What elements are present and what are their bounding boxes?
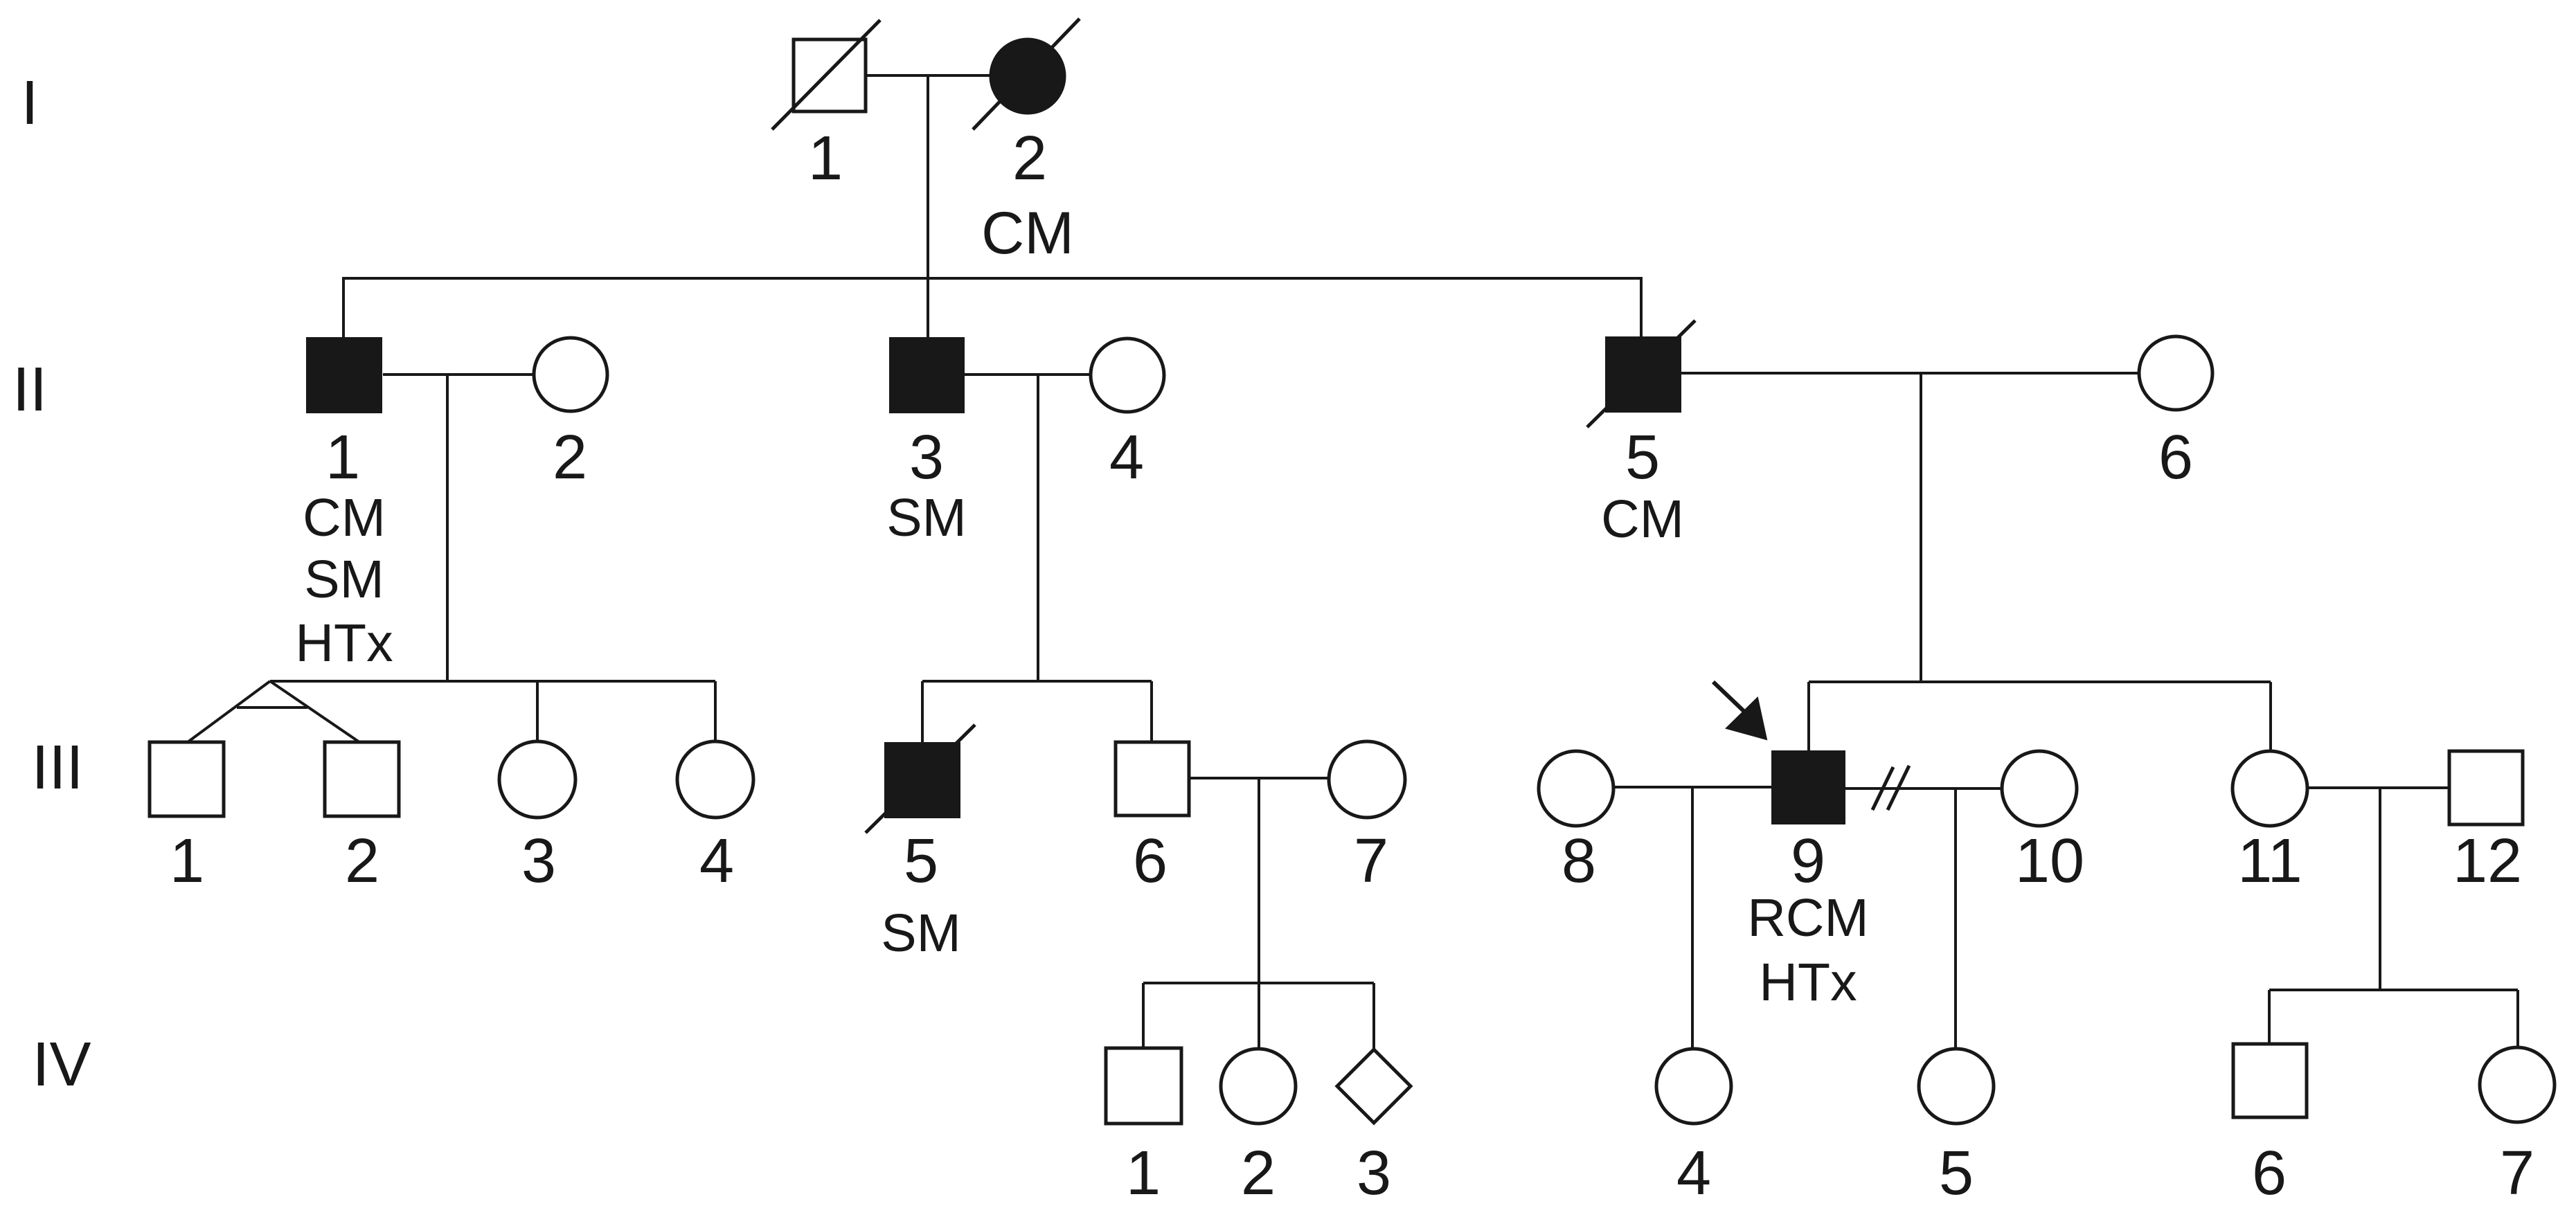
wire: II-3/II-4 couple line bbox=[965, 373, 1091, 376]
individual III-11 female bbox=[2233, 751, 2307, 826]
wire: I couple line bbox=[865, 74, 990, 77]
svg-text:4: 4 bbox=[1676, 1139, 1711, 1208]
wire: family D sibship line bbox=[1143, 982, 1374, 984]
wire: drop to III-4 bbox=[714, 681, 717, 743]
individual II-6 female bbox=[2139, 336, 2212, 410]
svg-text:10: 10 bbox=[2015, 827, 2084, 896]
individual II-4 female bbox=[1091, 339, 1164, 412]
individual II-2 female bbox=[534, 338, 607, 411]
svg-text:4: 4 bbox=[699, 827, 734, 896]
individual I-2 affected deceased female bbox=[973, 19, 1080, 129]
svg-text:I: I bbox=[21, 69, 38, 138]
svg-text:3: 3 bbox=[521, 827, 556, 896]
individual IV-5 female bbox=[1919, 1049, 1994, 1124]
wire: drop to III-11 bbox=[2269, 682, 2272, 752]
individual III-2 male twin bbox=[325, 742, 399, 816]
wire: drop to IV-3 bbox=[1372, 983, 1375, 1051]
divorce slashes bbox=[1872, 766, 1909, 810]
proband arrow bbox=[1713, 682, 1766, 739]
individual IV-6 male bbox=[2233, 1044, 2307, 1117]
individual II-5 affected deceased male bbox=[1587, 321, 1695, 427]
wire: drop to III-9 bbox=[1807, 682, 1810, 750]
svg-text:7: 7 bbox=[1354, 827, 1388, 896]
svg-text:5: 5 bbox=[904, 827, 938, 896]
svg-text:4: 4 bbox=[1109, 423, 1144, 492]
svg-text:12: 12 bbox=[2453, 827, 2522, 896]
wire: III-8/III-9 child line to IV-4 bbox=[1691, 787, 1694, 1048]
individual III-4 female bbox=[677, 741, 753, 818]
wire: II sibship line bbox=[343, 277, 1641, 280]
individual III-5 affected deceased male bbox=[866, 725, 975, 833]
wire: family A sibship line bbox=[270, 680, 715, 683]
wire: II-1/II-2 descender bbox=[446, 375, 449, 681]
svg-text:CM: CM bbox=[981, 200, 1074, 267]
individual III-8 female bbox=[1539, 751, 1613, 826]
individual III-1 male twin bbox=[150, 742, 224, 816]
svg-text:2: 2 bbox=[1241, 1139, 1276, 1208]
svg-text:CM: CM bbox=[1601, 489, 1684, 549]
wire: II-5/II-6 couple line bbox=[1681, 372, 2140, 375]
individual III-3 female bbox=[499, 741, 575, 818]
individual IV-1 male bbox=[1106, 1048, 1181, 1124]
svg-text:HTx: HTx bbox=[295, 613, 393, 673]
svg-text:CM: CM bbox=[303, 488, 386, 548]
wire: II-5/II-6 descender bbox=[1920, 373, 1922, 682]
wire: III-6/III-7 descender bbox=[1258, 778, 1260, 1048]
wire: drop to III-3 bbox=[536, 681, 539, 743]
individual I-1 deceased male bbox=[772, 20, 880, 129]
svg-text:RCM: RCM bbox=[1747, 888, 1868, 948]
wire: family B sibship line bbox=[922, 680, 1152, 683]
svg-text:SM: SM bbox=[881, 903, 961, 963]
svg-text:1: 1 bbox=[325, 423, 360, 492]
svg-text:1: 1 bbox=[1126, 1139, 1161, 1208]
wire: III-11/III-12 couple line bbox=[2307, 786, 2449, 789]
svg-text:2: 2 bbox=[553, 423, 587, 492]
svg-text:SM: SM bbox=[886, 488, 967, 548]
wire: drop to III-6 bbox=[1150, 681, 1153, 742]
individual III-10 female bbox=[2002, 751, 2077, 826]
svg-text:II: II bbox=[12, 355, 47, 424]
svg-text:SM: SM bbox=[304, 550, 384, 609]
svg-text:2: 2 bbox=[345, 827, 379, 896]
wire: I descender bbox=[927, 75, 929, 278]
svg-text:6: 6 bbox=[2158, 423, 2193, 492]
wire: family E sibship line bbox=[2269, 989, 2518, 991]
svg-text:5: 5 bbox=[1939, 1139, 1974, 1208]
wire: drop to IV-1 bbox=[1142, 983, 1145, 1048]
individual II-1 affected male bbox=[306, 337, 382, 413]
individual IV-7 female bbox=[2480, 1047, 2555, 1122]
wire: monozygotic twin bar bbox=[237, 706, 307, 709]
svg-text:III: III bbox=[31, 733, 83, 802]
svg-text:HTx: HTx bbox=[1759, 953, 1857, 1012]
wire: twin diagonal to III-2 bbox=[270, 681, 359, 742]
wire: II-3/II-4 descender bbox=[1037, 375, 1039, 681]
wire: drop to II-5 bbox=[1640, 277, 1643, 336]
individual IV-4 female bbox=[1656, 1049, 1731, 1124]
wire: III-6/III-7 couple line bbox=[1189, 777, 1330, 779]
svg-text:IV: IV bbox=[32, 1030, 91, 1099]
svg-text:2: 2 bbox=[1012, 124, 1047, 193]
individual II-3 affected male bbox=[889, 337, 965, 413]
svg-text:1: 1 bbox=[170, 827, 204, 896]
svg-text:6: 6 bbox=[2252, 1139, 2287, 1208]
svg-text:11: 11 bbox=[2237, 827, 2302, 896]
svg-text:3: 3 bbox=[1357, 1139, 1391, 1208]
wire: drop to II-1 bbox=[342, 277, 345, 337]
svg-text:3: 3 bbox=[909, 423, 944, 492]
svg-text:8: 8 bbox=[1562, 827, 1596, 896]
wire: drop to II-3 bbox=[927, 278, 929, 337]
wire: drop to IV-7 bbox=[2516, 990, 2519, 1049]
wire: drop to IV-6 bbox=[2268, 990, 2271, 1044]
wire: drop to III-5 bbox=[921, 681, 924, 742]
svg-text:5: 5 bbox=[1625, 423, 1660, 492]
individual III-6 male bbox=[1116, 742, 1189, 815]
wire: III-11/III-12 descender bbox=[2379, 788, 2381, 990]
wire: III-9/III-10 couple line bbox=[1845, 787, 2003, 790]
wire: family C sibship line bbox=[1809, 680, 2271, 683]
wire: II-1/II-2 couple line bbox=[383, 373, 534, 376]
svg-text:9: 9 bbox=[1791, 827, 1825, 896]
individual IV-3 unknown sex diamond bbox=[1337, 1049, 1411, 1123]
individual III-9 affected male proband bbox=[1771, 750, 1845, 824]
individual IV-2 female bbox=[1221, 1049, 1296, 1124]
individual III-7 female bbox=[1329, 741, 1405, 818]
svg-text:7: 7 bbox=[2500, 1139, 2534, 1208]
individual III-12 male bbox=[2449, 751, 2523, 824]
wire: III-9/III-10 child line to IV-5 bbox=[1954, 788, 1957, 1048]
wire: III-8/III-9 couple line bbox=[1612, 786, 1771, 788]
wire: twin diagonal to III-1 bbox=[188, 681, 270, 742]
svg-text:6: 6 bbox=[1133, 827, 1168, 896]
svg-text:1: 1 bbox=[808, 124, 843, 193]
